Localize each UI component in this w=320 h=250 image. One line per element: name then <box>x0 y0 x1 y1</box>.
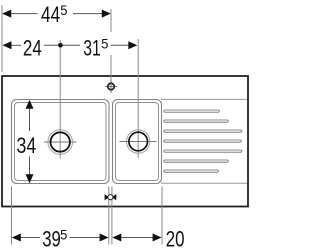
left basin inner <box>15 103 107 181</box>
extension line tap (x=111) upper <box>110 9 112 32</box>
tap hole inner cross v <box>110 83 112 89</box>
svg-text:44: 44 <box>41 2 60 27</box>
small drain crosshair horizontal <box>120 141 157 143</box>
drainer rib 2 <box>164 120 229 122</box>
extension line bottom x=162 <box>161 187 163 245</box>
drainer rib 1 <box>164 110 220 112</box>
svg-text:24: 24 <box>23 36 42 61</box>
dim row1 arrow right <box>102 10 111 18</box>
dim bottom 20 arrow right <box>153 234 162 242</box>
left drain ring <box>51 132 70 151</box>
extension line left top (x=2) <box>1 5 3 72</box>
small drain outer circle <box>127 130 150 153</box>
dim row1 line right <box>73 13 103 15</box>
left drain outer circle <box>48 130 73 155</box>
dim bottom line mid <box>70 237 100 239</box>
tap hole crosshair vertical <box>110 80 112 93</box>
extension line bottom x=11.5 <box>11 187 13 245</box>
drainer rib 5 <box>164 150 242 152</box>
svg-text:20: 20 <box>166 226 185 250</box>
svg-text:39: 39 <box>42 226 61 250</box>
svg-text:31: 31 <box>83 36 101 61</box>
waste symbol left triangle <box>105 194 109 200</box>
svg-text:5: 5 <box>60 3 67 18</box>
drainer bottom line <box>161 182 247 184</box>
waste symbol circle <box>108 195 113 200</box>
svg-text:5: 5 <box>60 227 67 242</box>
dim 34 line bottom <box>29 157 31 175</box>
waste symbol right triangle <box>112 194 116 200</box>
dim bottom 20 line <box>121 237 153 239</box>
dim bottom arrow right <box>100 234 109 242</box>
dim 34 arrow down <box>26 174 34 183</box>
tap hole crosshair horizontal <box>105 86 117 88</box>
left drain crosshair horizontal <box>44 141 77 143</box>
small basin inner <box>116 103 159 181</box>
dim row2 dot <box>58 43 63 48</box>
dim bottom line left <box>21 237 41 239</box>
center line small drain (x=138.2) <box>137 39 139 158</box>
dim row2 line mid <box>44 44 80 46</box>
extension line tap (x=111) lower <box>110 55 112 93</box>
drainer rib 3 <box>164 130 242 132</box>
small drain ring <box>129 132 148 151</box>
sink outer rectangle <box>2 76 248 207</box>
dim row1 line left <box>10 13 38 15</box>
dim row2 arrow left <box>3 41 12 49</box>
tap hole ring <box>108 83 114 89</box>
extension line bottom x=111.9 <box>111 187 113 245</box>
dim 34 line top <box>29 109 31 132</box>
dim row2 arrow right <box>128 41 137 49</box>
extension line bottom x=108.8 <box>108 187 110 245</box>
dim bottom arrow left <box>12 234 21 242</box>
svg-text:5: 5 <box>101 36 108 51</box>
drainer rib 6 <box>164 160 229 162</box>
drainer rib 4 <box>164 140 242 142</box>
tap hole inner cross h <box>108 86 114 88</box>
small basin outer <box>113 100 162 184</box>
drainer rib 7 <box>164 170 219 172</box>
dim bottom 20 arrow left <box>112 234 121 242</box>
center line left drain (x=60.2) <box>59 40 61 159</box>
dim row1 arrow left <box>2 10 11 18</box>
left basin outer <box>12 100 110 184</box>
drainer top line <box>161 98 247 100</box>
dim row2 line right <box>111 44 129 46</box>
dim row2 line left <box>11 44 21 46</box>
svg-text:34: 34 <box>17 133 37 158</box>
dim 34 arrow up <box>26 100 34 109</box>
